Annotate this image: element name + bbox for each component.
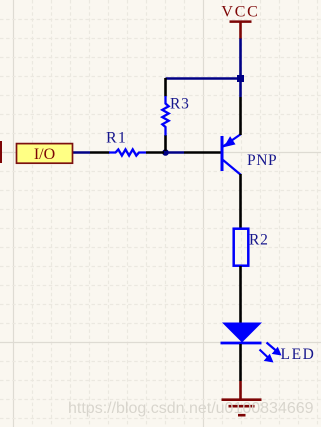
svg-text:https://blog.csdn.net/u0100834: https://blog.csdn.net/u0100834669: [68, 400, 314, 417]
svg-text:PNP: PNP: [247, 152, 277, 169]
svg-text:I/O: I/O: [34, 146, 55, 163]
svg-text:R2: R2: [249, 232, 269, 249]
svg-text:R1: R1: [106, 130, 127, 147]
svg-text:VCC: VCC: [221, 4, 259, 21]
svg-text:LED: LED: [281, 346, 316, 363]
svg-text:R3: R3: [170, 96, 190, 113]
